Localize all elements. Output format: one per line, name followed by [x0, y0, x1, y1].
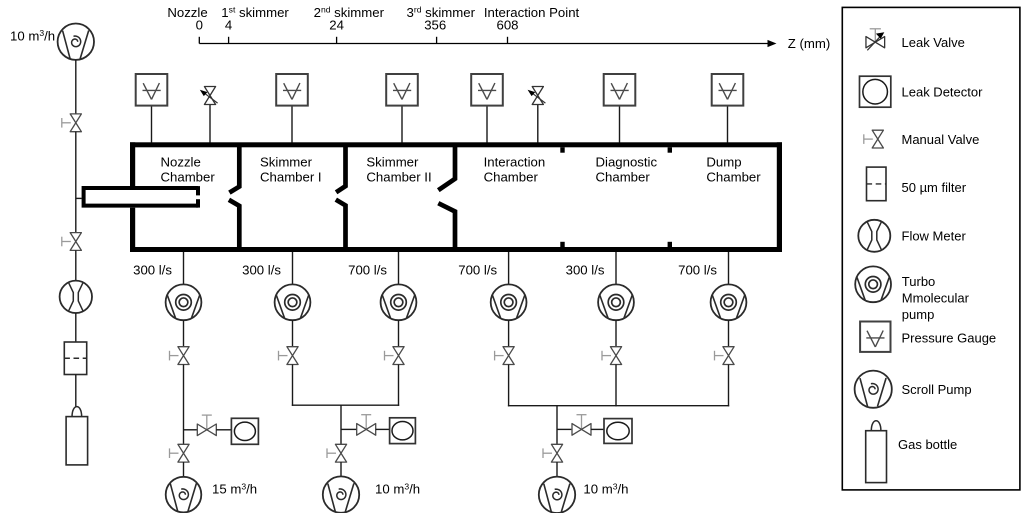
chamber right wall: [777, 142, 782, 252]
svg-text:Z (mm): Z (mm): [788, 36, 830, 51]
svg-text:24: 24: [329, 18, 344, 33]
wire leak valve LV1 to chamber: [209, 105, 211, 143]
wire chamber to turbo TP3: [398, 252, 400, 285]
wire header right manifold: [508, 405, 729, 407]
manual valve MV7: [170, 444, 190, 462]
wire chamber to turbo TP5: [615, 252, 617, 285]
pressure gauge PG2: [276, 74, 308, 106]
manual valve MV5: [602, 347, 622, 365]
wire junction to branch valve BV2: [341, 428, 357, 430]
wire MV6 down: [728, 365, 730, 407]
axis tick 4: [228, 37, 230, 44]
svg-text:10 m3/h: 10 m3/h: [375, 481, 420, 496]
wire header skimmer manifold: [292, 404, 399, 406]
svg-text:700 l/s: 700 l/s: [348, 262, 387, 277]
svg-text:Pressure Gauge: Pressure Gauge: [902, 330, 997, 345]
manual valve MV6: [715, 347, 735, 365]
manual valve MV3: [385, 347, 405, 365]
wire junction to branch valve BV3: [557, 428, 571, 430]
manual valve V1: [62, 114, 82, 132]
svg-text:Scroll Pump: Scroll Pump: [902, 382, 972, 397]
chamber left wall lower: [130, 208, 135, 252]
wire MV4 down: [508, 365, 510, 407]
wire V1 to V2: [75, 132, 77, 233]
pressure gauge PG4: [471, 74, 503, 106]
turbo pump TP4: [491, 284, 527, 320]
svg-text:50 µm filter: 50 µm filter: [902, 180, 967, 195]
turbo pump TP6: [711, 284, 747, 320]
legend gas bottle icon: [866, 421, 887, 483]
manual valve MV4: [495, 347, 515, 365]
svg-text:4: 4: [225, 18, 232, 33]
legend leak detector icon: [860, 76, 891, 107]
svg-text:356: 356: [424, 18, 446, 33]
wire BV1 to leak detector LD1: [216, 429, 231, 431]
wire MV1 down to junction: [183, 365, 185, 445]
wire V2 to flow meter: [75, 250, 77, 280]
svg-text:700 l/s: 700 l/s: [678, 262, 717, 277]
axis tick 0: [198, 37, 200, 44]
manual valve MV1: [170, 347, 190, 365]
filter F1 50um: [64, 342, 86, 375]
wire header drop right: [556, 406, 558, 445]
wire chamber to turbo TP2: [292, 252, 294, 285]
legend flow meter icon: [858, 220, 890, 252]
leak detector LD1: [231, 418, 258, 444]
Z axis line with arrow: [199, 40, 776, 47]
legend pressure gauge icon: [860, 322, 890, 352]
legend turbo icon: [855, 266, 891, 302]
svg-text:DiagnosticChamber: DiagnosticChamber: [596, 155, 658, 185]
wire turbo TP2 to valve MV2: [292, 320, 294, 347]
svg-text:Flow Meter: Flow Meter: [902, 229, 967, 244]
manual valve MV8: [327, 444, 347, 462]
legend scroll pump icon: [855, 371, 892, 408]
branch valve BV3: [572, 415, 591, 436]
wire BV2 to leak detector LD2: [376, 428, 390, 430]
nozzle tube: [82, 186, 200, 208]
wire gasline to nozzle tube: [76, 197, 82, 199]
partition stub bottom 2: [668, 242, 672, 247]
svg-text:15 m3/h: 15 m3/h: [212, 481, 257, 496]
branch valve BV1: [197, 415, 216, 436]
wire gauge PG5 to chamber: [619, 106, 621, 143]
manual valve V2: [62, 233, 82, 251]
legend manual valve icon: [864, 130, 884, 148]
pressure gauge PG6: [712, 74, 744, 106]
turbo pump TP2: [275, 284, 311, 320]
wire flow meter to filter: [75, 313, 77, 342]
scroll pump SP4: [539, 477, 575, 513]
wire header drop: [340, 405, 342, 444]
partition skimmer 1: [229, 147, 239, 247]
wire turbo TP6 to valve MV6: [728, 320, 730, 347]
svg-text:608: 608: [496, 18, 518, 33]
wire MV3 down: [398, 365, 400, 406]
wire chamber to turbo TP1: [183, 252, 185, 285]
svg-text:Gas bottle: Gas bottle: [898, 437, 957, 452]
svg-text:300 l/s: 300 l/s: [133, 262, 172, 277]
wire leak valve LV2 to chamber: [537, 105, 539, 143]
flow meter FM1: [60, 281, 92, 313]
svg-text:Leak Detector: Leak Detector: [902, 85, 984, 100]
wire filter to gas bottle: [75, 375, 77, 408]
wire MV7 to scroll SP2: [183, 462, 185, 477]
wire gauge PG6 to chamber: [727, 106, 729, 143]
branch valve BV2: [357, 415, 376, 436]
turbo pump TP5: [598, 284, 634, 320]
pressure gauge PG3: [386, 74, 418, 106]
wire gauge PG4 to chamber: [486, 106, 488, 143]
leak valve LV2: [528, 87, 546, 105]
svg-text:10 m3/h: 10 m3/h: [583, 481, 628, 496]
svg-text:Leak Valve: Leak Valve: [902, 35, 965, 50]
chamber bottom wall: [130, 247, 782, 252]
svg-text:300 l/s: 300 l/s: [566, 262, 605, 277]
wire MV9 to scroll SP4: [556, 462, 558, 477]
leak detector LD3: [604, 419, 632, 444]
pressure gauge PG1: [136, 74, 168, 106]
wire MV5 down: [615, 365, 617, 407]
manual valve MV2: [279, 347, 299, 365]
wire MV2 down: [292, 365, 294, 406]
wire junction to branch valve BV1: [184, 429, 198, 431]
axis tick 356: [436, 37, 438, 44]
wire turbo TP1 to valve MV1: [183, 320, 185, 347]
legend filter icon: [867, 167, 887, 201]
wire turbo TP5 to valve MV5: [615, 320, 617, 347]
partition stub top 2: [668, 147, 672, 152]
svg-text:InteractionChamber: InteractionChamber: [484, 155, 546, 185]
wire BV3 to leak detector LD3: [591, 428, 604, 430]
legend box: [842, 7, 1020, 490]
leak valve LV1: [200, 87, 218, 105]
gas bottle GB1: [66, 407, 88, 465]
wire turbo TP3 to valve MV3: [398, 320, 400, 347]
wire gauge PG2 to chamber: [291, 106, 293, 143]
wire turbo TP4 to valve MV4: [508, 320, 510, 347]
wire MV8 to scroll SP3: [340, 462, 342, 477]
chamber left wall upper: [130, 142, 135, 186]
wire gauge PG3 to chamber: [401, 106, 403, 143]
svg-text:300 l/s: 300 l/s: [242, 262, 281, 277]
partition skimmer 3: [438, 147, 455, 247]
svg-text:700 l/s: 700 l/s: [458, 262, 497, 277]
scroll pump SP3: [323, 476, 359, 512]
turbo pump TP3: [381, 284, 417, 320]
scroll pump SP2: [166, 477, 202, 513]
manual valve MV9: [543, 444, 563, 462]
partition stub bottom 1: [560, 242, 564, 247]
legend leak valve icon: [866, 29, 885, 51]
svg-text:0: 0: [196, 18, 203, 33]
axis tick 24: [336, 37, 338, 44]
wire chamber to turbo TP4: [508, 252, 510, 285]
leak detector LD2: [390, 418, 416, 444]
wire SP1 to V1: [75, 60, 77, 114]
wire chamber to turbo TP6: [728, 252, 730, 285]
svg-text:10 m3/h: 10 m3/h: [10, 28, 55, 43]
scroll pump SP1: [58, 24, 94, 60]
chamber top wall: [130, 142, 782, 147]
partition skimmer 2: [336, 147, 346, 247]
turbo pump TP1: [166, 284, 202, 320]
partition stub top 1: [560, 147, 564, 152]
pressure gauge PG5: [604, 74, 636, 106]
svg-text:Manual Valve: Manual Valve: [902, 132, 980, 147]
wire gauge PG1 to chamber: [151, 106, 153, 143]
axis tick 608: [507, 37, 509, 44]
